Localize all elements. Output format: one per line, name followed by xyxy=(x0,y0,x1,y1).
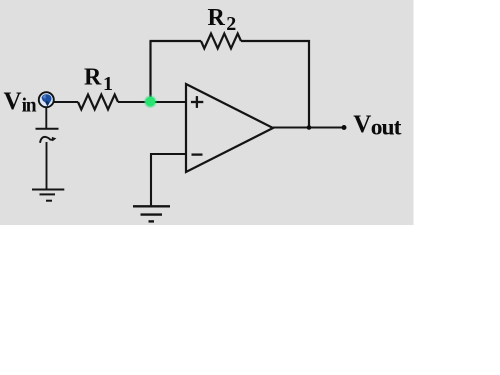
svg-text:out: out xyxy=(371,115,402,141)
voltage source V1 (AC) xyxy=(36,129,59,143)
label R2 xyxy=(208,5,237,35)
wire: op-amp inverting input to ground xyxy=(151,154,186,206)
svg-text:in: in xyxy=(22,96,37,117)
svg-text:V: V xyxy=(4,88,22,115)
label Vin xyxy=(4,88,37,116)
svg-text:2: 2 xyxy=(226,13,236,35)
wire: Vin terminal to R1 xyxy=(52,101,78,103)
node A (non-inverting input junction, green) xyxy=(144,95,157,108)
svg-text:1: 1 xyxy=(103,73,113,95)
wire: node A up to feedback loop xyxy=(149,41,151,102)
ground (inverting input) xyxy=(133,206,170,221)
resistor R2 xyxy=(201,34,241,49)
svg-text:V: V xyxy=(353,111,371,138)
terminal Vin (input post, blue) xyxy=(39,92,54,107)
wire: source to ground xyxy=(46,142,48,190)
label R1 xyxy=(84,65,113,96)
wire: node A to op-amp non-inverting input xyxy=(150,101,186,103)
wire: top-left feedback segment xyxy=(150,40,202,42)
svg-text:R: R xyxy=(84,65,102,91)
wire: Vin terminal down to source xyxy=(45,107,47,129)
terminal Vout (output post) xyxy=(342,125,347,130)
resistor R1 xyxy=(78,95,118,110)
wire: op-amp output xyxy=(273,126,344,128)
junction: feedback meets output xyxy=(307,125,312,130)
wire: R2 to output branch xyxy=(241,40,310,42)
op-amp U1 xyxy=(186,84,273,172)
label Vout xyxy=(353,111,401,141)
ground (source) xyxy=(32,190,64,201)
wire: R1 to node A xyxy=(118,101,150,103)
wire: feedback branch down to output xyxy=(308,40,310,128)
svg-text:R: R xyxy=(208,5,226,31)
